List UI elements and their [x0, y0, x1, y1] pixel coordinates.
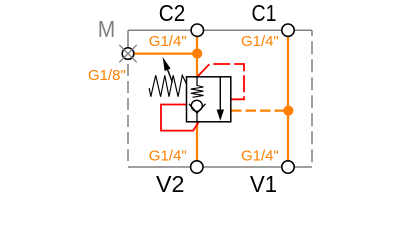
- valve V1 body: [187, 77, 231, 122]
- wire orange dashed valve to C1 line: [231, 109, 288, 111]
- svg-text:C2: C2: [159, 0, 186, 26]
- svg-text:V2: V2: [156, 171, 185, 197]
- wire orange valve to V2: [196, 122, 198, 161]
- enclosure border bottom: [128, 166, 312, 168]
- enclosure border right dashed segment: [311, 30, 313, 167]
- enclosure border left solid segment: [127, 30, 129, 48]
- svg-text:G1/4": G1/4": [241, 147, 279, 164]
- port circle V1: [282, 161, 294, 173]
- check valve inlet line: [196, 77, 198, 86]
- svg-text:V1: V1: [250, 171, 277, 197]
- enclosure border top: [128, 29, 312, 31]
- port circle C1: [282, 24, 294, 36]
- svg-text:G1/4": G1/4": [149, 147, 187, 164]
- spring (adjustable, external): [149, 75, 186, 96]
- svg-text:G1/4": G1/4": [149, 33, 187, 50]
- port circle C2: [191, 24, 203, 36]
- adjustment arrow shaft: [168, 70, 173, 83]
- wire orange C1 to V1: [287, 36, 289, 161]
- svg-text:G1/4": G1/4": [241, 33, 279, 50]
- gauge port X cross: [119, 45, 136, 62]
- node junction dot C2 line: [192, 48, 202, 58]
- node junction dot C1 line: [283, 106, 293, 116]
- wire red pilot lower loop: [161, 105, 199, 131]
- wire orange C2 drop to valve: [196, 36, 198, 77]
- enclosure border left dashed segment: [127, 64, 129, 166]
- port circle V2: [191, 161, 203, 173]
- check valve seat: [189, 104, 206, 113]
- check valve poppet ball: [191, 100, 202, 111]
- svg-text:M: M: [98, 16, 116, 42]
- svg-text:G1/8": G1/8": [88, 67, 126, 84]
- check valve spring (internal): [191, 86, 204, 98]
- port circle M gauge: [122, 48, 134, 60]
- svg-text:C1: C1: [252, 0, 277, 26]
- check valve outlet line: [196, 113, 198, 122]
- wire orange M gauge line: [134, 52, 197, 54]
- wire red dashed pilot upper loop: [198, 64, 244, 99]
- adjustment arrow head: [163, 57, 171, 71]
- flow path arrow head: [217, 110, 224, 121]
- flow path line (right section): [219, 77, 221, 111]
